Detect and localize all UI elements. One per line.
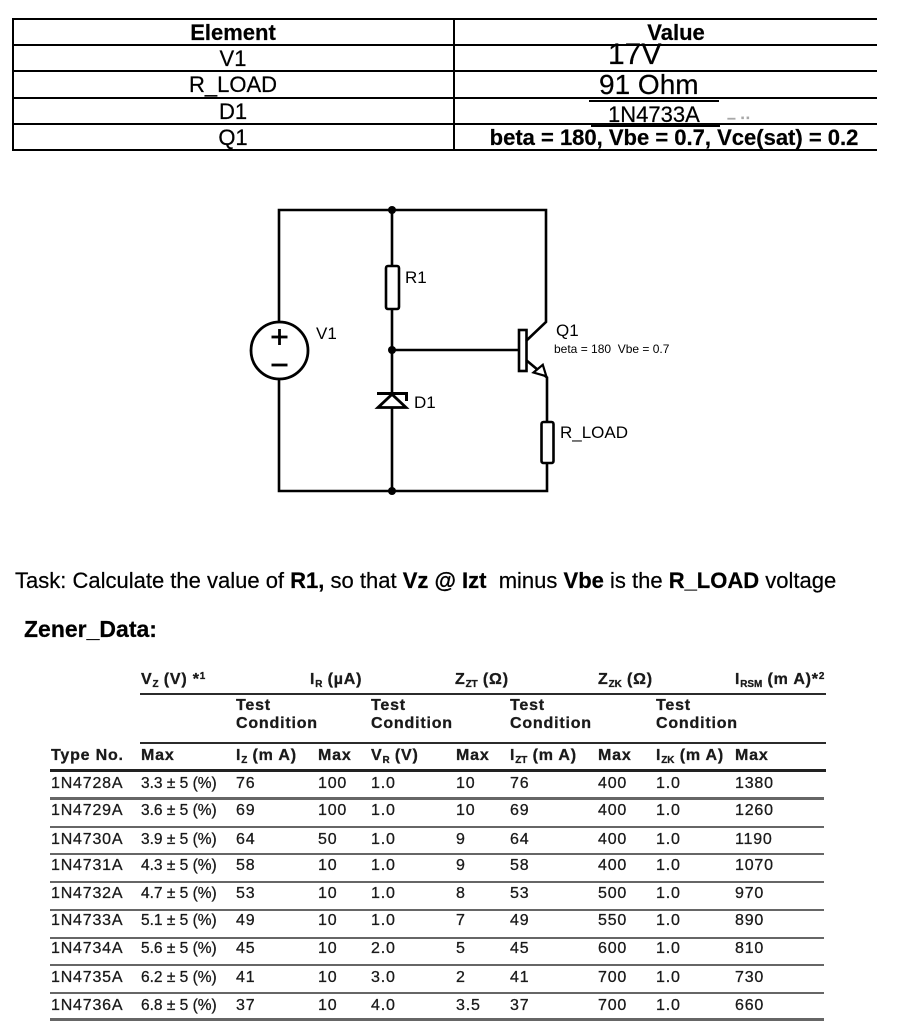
svg-text:R_LOAD: R_LOAD <box>560 423 628 442</box>
svg-text:D1: D1 <box>414 393 436 412</box>
svg-text:R1: R1 <box>405 268 427 287</box>
svg-text:beta = 180 Vbe = 0.7: beta = 180 Vbe = 0.7 <box>554 342 670 356</box>
svg-text:Q1: Q1 <box>556 321 579 340</box>
svg-text:V1: V1 <box>316 324 337 343</box>
